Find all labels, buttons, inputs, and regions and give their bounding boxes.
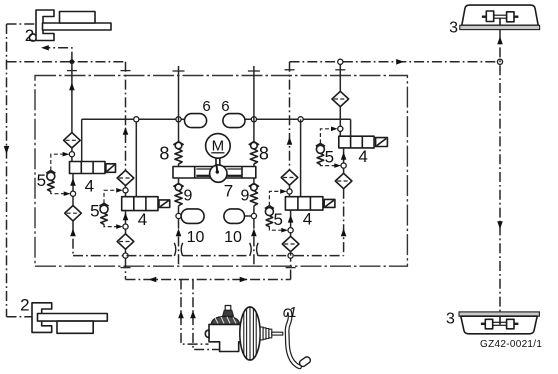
junction dot front header: [70, 59, 75, 64]
node above S3: [338, 126, 343, 131]
wire: S2 to lower node: [125, 211, 127, 227]
arrow up below S2: [123, 213, 129, 221]
node above S4: [287, 189, 292, 194]
node delivery right pump column: [251, 117, 256, 122]
arrow up riser B: [190, 311, 196, 319]
wire: delivery drop to S1 port2: [81, 119, 83, 161]
relief valve 5 (S4): [265, 206, 274, 227]
wire: delivery drop to S4 port2: [300, 119, 302, 196]
node delivery S4 drop: [298, 117, 303, 122]
pilot wire 5-S3 upper: [320, 129, 333, 144]
node rear header right: [497, 59, 502, 64]
filter below S4: [282, 236, 299, 251]
wire: node to filter below S2: [125, 229, 127, 234]
filter above S2: [117, 170, 134, 185]
wire: stub to front caliper 2 bottom: [7, 316, 33, 318]
accumulator 6 right: [223, 114, 245, 128]
wire: master cylinder riser A: [181, 280, 209, 345]
solenoid valve 4 (S3 rear upper): [339, 136, 388, 148]
front caliper 2 bottom: [32, 303, 107, 334]
arrow right into node above S1: [63, 152, 70, 157]
pilot wire 5-S4 lower: [269, 226, 283, 230]
node above S1: [69, 152, 74, 157]
hop arcs left suction crossing: [174, 243, 182, 256]
pilot wire 5-S1 upper: [51, 154, 65, 170]
filter below S3: [335, 173, 352, 188]
svg-text:5: 5: [37, 171, 46, 190]
accumulator 6 left: [185, 114, 207, 128]
arrow right into node above S2: [116, 188, 123, 193]
wire: node to filter below S3: [343, 168, 345, 173]
wire: front circuit top header y=62: [7, 61, 126, 63]
svg-text:1: 1: [289, 305, 297, 321]
svg-text:3: 3: [446, 311, 455, 328]
node reservoir right: [251, 213, 256, 218]
check valve 9 right: [249, 178, 259, 216]
pilot wire 5-S4 upper: [269, 191, 282, 205]
arrow up S3 return: [341, 229, 347, 237]
svg-text:5: 5: [325, 147, 334, 166]
wire: reservoir 10 right stub: [245, 215, 252, 217]
relief valve 5 (S1): [46, 170, 55, 191]
arrow up S4 upper column: [287, 137, 293, 145]
relief valve 5 (S3): [316, 143, 325, 164]
arrow right into node above S4: [280, 189, 287, 194]
wire: S4 to lower node: [290, 210, 292, 230]
wire: S3 upper column: [339, 64, 341, 91]
wire: right pump suction column: [253, 219, 255, 266]
pilot wire 5-S2 upper: [104, 190, 118, 203]
arrow right into node above S3: [331, 127, 338, 132]
svg-text:5: 5: [273, 210, 282, 229]
wire: left pump outlet column: [178, 66, 180, 141]
arrow up below S1: [70, 178, 76, 186]
arrow down on left main line: [4, 146, 10, 154]
svg-text:3: 3: [449, 20, 458, 37]
solenoid valve 4 (S1 front-left): [70, 162, 116, 174]
pump eccentric and shaft: [210, 158, 227, 183]
wire: S3 lower return drop: [343, 189, 345, 256]
wire: branch to top caliper with arrow: [44, 48, 72, 62]
wire: front circuit left main line: [6, 24, 8, 317]
svg-text:8: 8: [159, 144, 169, 164]
wire: rear return riser: [290, 258, 292, 279]
arrow right on master header: [240, 277, 248, 283]
arrow right into node below S4: [281, 228, 288, 233]
arrow up below S4: [288, 215, 294, 223]
pilot wire 5-S3 lower: [320, 164, 336, 166]
crossing tick S2 column: [121, 70, 131, 72]
master cylinder 1 assembly: [205, 306, 242, 352]
arrow up S2 upper column: [123, 127, 129, 135]
wire: node to filter below S1: [72, 196, 74, 205]
arrow up left suction: [176, 229, 182, 237]
svg-text:7: 7: [224, 182, 233, 201]
svg-text:8: 8: [259, 144, 269, 164]
crossing tick right pump column: [248, 70, 260, 72]
check valve 8 left: [173, 142, 183, 167]
wire: node to S3 port1: [339, 131, 341, 136]
node return right: [288, 253, 293, 258]
wire: master cylinder header line: [126, 279, 291, 281]
crossing tick left pump column: [173, 70, 185, 72]
svg-text:4: 4: [138, 210, 147, 229]
wire: right pump outlet column: [253, 66, 255, 141]
svg-text:10: 10: [224, 229, 242, 246]
arrow right into node below S1: [64, 191, 71, 196]
wire: filter to node S1: [71, 148, 73, 154]
wire: delivery line left segment: [82, 118, 185, 120]
node reservoir left: [176, 213, 181, 218]
node below S1: [70, 191, 75, 196]
svg-text:GZ42-0021/1: GZ42-0021/1: [480, 339, 542, 350]
arrow down to bottom drum: [497, 221, 503, 229]
filter below S1: [65, 206, 82, 221]
wire: node to filter below S4: [290, 233, 292, 237]
crossing tick bottom left: [121, 267, 131, 269]
wire: solenoid S1 upper column: [71, 62, 73, 133]
node below S3: [341, 163, 346, 168]
wire: node to S1 port1: [71, 157, 73, 162]
arrow left into top caliper: [41, 45, 49, 50]
solenoid valve 4 (S2 front-left outer): [122, 197, 170, 211]
wire: stub to front caliper 2 top: [7, 23, 36, 25]
actuator housing box: [35, 76, 407, 267]
arrow right on rear header: [396, 59, 404, 65]
wire: node to S2 port1: [125, 193, 127, 197]
rear drum 3 bottom: [459, 312, 539, 334]
wire: S3 to lower node: [343, 148, 345, 166]
crossing tick S1 column: [67, 70, 77, 72]
filter above S1: [64, 133, 81, 148]
svg-text:5: 5: [90, 201, 99, 220]
crossing tick bottom right: [286, 267, 296, 269]
svg-text:10: 10: [187, 229, 205, 246]
wire: delivery line right segment: [245, 118, 351, 120]
svg-text:6: 6: [221, 98, 229, 115]
wire: solenoid S2 upper column: [125, 62, 127, 171]
wire: master cylinder riser B: [193, 280, 224, 350]
svg-text:4: 4: [358, 147, 367, 166]
wire: delivery drop to S2 port2: [135, 119, 137, 196]
hop arcs right suction crossing: [250, 243, 258, 256]
wire: left pump suction column: [178, 219, 180, 266]
reservoir 10 left: [181, 209, 204, 224]
svg-text:9: 9: [183, 187, 192, 204]
filter above S3: [332, 91, 349, 106]
arrow up S1 upper column: [69, 83, 75, 91]
arrow up riser A: [178, 311, 184, 319]
svg-text:4: 4: [303, 209, 312, 228]
node below S2: [123, 224, 128, 229]
wire: node to S4 port1: [289, 194, 291, 197]
node above S2: [123, 188, 128, 193]
wire: return line inside box: [73, 255, 344, 257]
node below S4: [288, 228, 293, 233]
arrow up to top drum: [497, 37, 503, 45]
pump block 7: [173, 167, 256, 179]
arrow left on master header: [149, 277, 157, 283]
arrow right into node below S3: [334, 163, 341, 168]
node return left: [123, 253, 128, 258]
wire: rear circuit top header: [290, 61, 501, 63]
filter below S2: [117, 234, 134, 249]
wire: delivery drop to S3 port2: [350, 119, 352, 136]
filter above S4: [281, 170, 298, 185]
pilot wire 5-S2 lower: [104, 224, 118, 227]
wire: filter to node S4: [289, 185, 291, 191]
svg-text:2: 2: [20, 296, 29, 315]
svg-text:4: 4: [85, 177, 94, 196]
solenoid valve 4 (S4 rear lower): [285, 197, 335, 210]
wire: filter to return node S2: [125, 249, 127, 255]
pilot wire 5-S1 lower: [51, 191, 66, 194]
svg-text:2: 2: [25, 26, 34, 45]
svg-text:M: M: [212, 137, 225, 154]
wire: rear drums main line: [499, 30, 501, 312]
svg-text:6: 6: [202, 98, 210, 115]
crossing tick S3 column: [335, 69, 345, 71]
wire: S4 upper column: [289, 62, 291, 170]
node rear header S3: [338, 59, 343, 64]
wire: filter to node S2: [125, 186, 127, 191]
arrow up S1 return: [70, 229, 76, 237]
svg-text:9: 9: [240, 187, 249, 204]
arrow right into node below S2: [116, 224, 123, 229]
reservoir 10 right: [224, 209, 245, 224]
rear drum 3 top: [460, 5, 540, 29]
brake pedal: [286, 311, 312, 368]
wire: filter to node S3: [339, 107, 341, 129]
crossing tick S4 column: [285, 69, 295, 71]
wire: S1 lower return drop: [72, 221, 74, 256]
check valve 8 right: [249, 142, 259, 167]
pump motor M: [206, 134, 231, 159]
booster pushrod bellows: [260, 327, 283, 340]
node delivery left pump column: [176, 117, 181, 122]
node delivery S2 drop: [134, 117, 139, 122]
relief valve 5 (S2): [99, 203, 108, 224]
arrow up right suction: [251, 229, 257, 237]
front caliper 2 top: [29, 10, 111, 41]
wire: filter to return node S4: [290, 252, 292, 256]
arrow up below S3: [341, 152, 347, 160]
wire: front return to master line: [125, 258, 127, 279]
brake booster: [240, 307, 260, 360]
check valve 9 left: [173, 178, 183, 216]
wire: S1 to lower node: [72, 174, 74, 194]
